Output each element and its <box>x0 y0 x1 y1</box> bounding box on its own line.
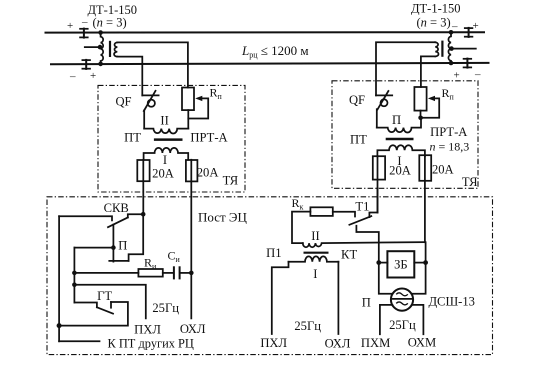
svg-text:ПТ: ПТ <box>350 133 367 147</box>
svg-text:+: + <box>67 20 73 32</box>
wire ЗБ left stub <box>379 262 388 264</box>
wiper arrow loop Rп right <box>421 96 440 118</box>
contact ГТ <box>59 302 128 326</box>
svg-text:20А: 20А <box>152 167 174 181</box>
transformer ПТ left winding I <box>144 148 189 160</box>
choke transformer DT2 right primary winding <box>448 32 451 63</box>
wire К ПТ stub <box>59 340 99 342</box>
contact СКВ <box>59 212 145 248</box>
block ЗБ <box>387 251 414 277</box>
node Rи branch <box>72 271 77 276</box>
Post EC box <box>47 197 493 355</box>
choke transformer DT2 right secondary winding <box>435 42 438 56</box>
svg-text:–: – <box>69 71 76 83</box>
transformer ПРТ right winding I <box>377 145 425 156</box>
svg-text:QF: QF <box>115 95 131 109</box>
wire left fuse through right box <box>377 156 379 212</box>
node bottom rail tap right <box>449 61 454 66</box>
core of ПТ left <box>154 138 183 141</box>
svg-text:П: П <box>362 295 371 309</box>
resistor Rп right <box>414 87 426 111</box>
transformer П1 winding II <box>303 242 425 247</box>
node top rail tap right <box>449 30 454 35</box>
wire secondary bottom to QF <box>117 57 142 96</box>
wire right vertical to ДСШ <box>412 242 426 294</box>
wire middle tap stub right <box>452 48 476 50</box>
wire ПХЛ branch left section <box>74 285 145 319</box>
wire П1-I left to ПХЛ terminal <box>272 262 289 334</box>
svg-text:25Гц: 25Гц <box>294 319 321 333</box>
node middle tap right <box>449 46 454 51</box>
core of П1 <box>304 252 329 254</box>
choke transformer DT1 left secondary winding <box>114 42 117 56</box>
relay ДСШ-13 <box>391 289 413 311</box>
wire left fuse through <box>142 160 144 214</box>
svg-text:–: – <box>81 16 88 28</box>
breaker QF right <box>376 91 392 128</box>
svg-text:ПРТ-А: ПРТ-А <box>430 125 467 139</box>
wire top rail <box>46 31 485 33</box>
insulated joint bottom-right <box>464 59 472 68</box>
svg-text:ПТ: ПТ <box>124 131 141 145</box>
svg-text:ОХЛ: ОХЛ <box>180 322 206 336</box>
wire bottom rail <box>51 63 489 64</box>
core of DT2 right <box>441 41 443 57</box>
wire right fuse through right box <box>424 156 426 242</box>
wire inner vertical <box>73 248 75 303</box>
wire ОХМ terminal <box>412 305 424 334</box>
svg-text:20А: 20А <box>197 166 219 180</box>
node Cи to ОХЛ wire <box>189 271 194 276</box>
svg-text:+: + <box>90 70 96 82</box>
resistor Rи <box>74 269 173 277</box>
svg-text:(n = 3): (n = 3) <box>93 16 127 30</box>
node bottom rail tap <box>98 62 103 67</box>
svg-text:25Гц: 25Гц <box>152 301 179 315</box>
core of ПРТ right <box>386 138 414 141</box>
wire ПХМ terminal <box>380 305 392 334</box>
svg-text:I: I <box>313 267 317 281</box>
svg-text:ДТ-1-150: ДТ-1-150 <box>411 2 461 16</box>
resistor Rп left <box>182 88 194 111</box>
wire Rp bottom to winding II <box>187 110 189 129</box>
svg-text:К ПТ других РЦ: К ПТ других РЦ <box>108 337 194 351</box>
node top rail tap <box>98 30 103 35</box>
breaker QF left <box>142 91 158 129</box>
wire outer vertical <box>58 216 60 341</box>
wire ЗБ right stub <box>414 262 425 264</box>
fuse 20А left-1 <box>137 160 149 181</box>
transformer ПТ left winding II <box>144 129 188 134</box>
wire Rp bottom to dot right <box>420 111 422 118</box>
svg-text:I: I <box>163 153 167 167</box>
svg-text:Т1: Т1 <box>355 200 369 214</box>
wire П1-I right to ОХЛ terminal <box>337 262 339 334</box>
fuse 20А left-2 <box>186 160 198 181</box>
wire left vertical to ДСШ <box>379 263 393 294</box>
fuse 20А right-2 <box>419 155 431 181</box>
svg-text:СКВ: СКВ <box>104 201 129 215</box>
svg-text:ТЯ: ТЯ <box>462 175 478 189</box>
svg-text:ПХЛ: ПХЛ <box>260 336 287 350</box>
svg-text:ПРТ-А: ПРТ-А <box>190 131 227 145</box>
svg-text:–: – <box>474 69 481 81</box>
svg-text:ПХМ: ПХМ <box>361 336 390 350</box>
svg-text:II: II <box>160 113 168 127</box>
core of DT1 left <box>109 41 111 57</box>
insulated joint top-left <box>80 29 88 38</box>
wiper arrow loop Rп left <box>188 96 208 119</box>
svg-text:П: П <box>392 113 401 127</box>
fuse 20А right-1 <box>373 156 385 179</box>
wire secondary top to Rp <box>117 42 188 87</box>
svg-text:+: + <box>454 70 460 82</box>
wire П horizontal to inner vertical <box>74 247 113 249</box>
wire secondary top to QF right <box>376 42 435 95</box>
svg-text:n = 18,3: n = 18,3 <box>430 140 470 154</box>
svg-text:II: II <box>311 229 319 243</box>
svg-text:QF: QF <box>349 93 365 107</box>
svg-text:Пост ЭЦ: Пост ЭЦ <box>198 210 247 225</box>
contact П <box>109 245 128 261</box>
svg-text:ЗБ: ЗБ <box>394 257 408 271</box>
wire ОХЛ terminal left section <box>190 273 192 319</box>
resistor Rк <box>292 207 333 243</box>
svg-text:ОХМ: ОХМ <box>408 336 436 350</box>
svg-text:25Гц: 25Гц <box>389 318 416 332</box>
svg-text:20А: 20А <box>432 162 454 176</box>
wire fuse1 down to П contact step <box>129 214 144 261</box>
svg-text:П1: П1 <box>266 246 281 260</box>
svg-text:КТ: КТ <box>341 248 357 262</box>
svg-text:20А: 20А <box>389 164 411 178</box>
capacitor Cи <box>174 266 191 279</box>
node ГТ return on outer vertical <box>57 323 62 328</box>
insulated joint bottom-left <box>82 60 90 69</box>
svg-text:+: + <box>473 20 479 32</box>
node Rp bottom right <box>418 116 423 121</box>
TYa cabinet box left <box>98 85 245 192</box>
svg-text:ТЯ: ТЯ <box>223 174 239 188</box>
wire middle tap stub left <box>85 46 100 48</box>
contact Т1 <box>333 188 379 262</box>
node ЗБ right <box>423 260 428 265</box>
transformer ПРТ right winding П <box>377 118 421 133</box>
svg-text:ПХЛ: ПХЛ <box>134 322 161 336</box>
node ЗБ left <box>376 260 381 265</box>
node ПХЛ branch <box>72 282 77 287</box>
svg-text:(n = 3): (n = 3) <box>417 16 451 30</box>
svg-text:ГТ: ГТ <box>97 289 112 303</box>
transformer П1 winding I <box>289 256 339 261</box>
TYa cabinet box right <box>332 81 478 189</box>
svg-text:ОХЛ: ОХЛ <box>325 337 351 351</box>
wire secondary bottom to Rp right <box>421 56 435 87</box>
node middle tap <box>98 45 103 50</box>
wire right fuse through <box>190 160 192 273</box>
svg-text:П: П <box>118 238 127 252</box>
svg-text:ДСШ-13: ДСШ-13 <box>428 295 474 309</box>
insulated joint top-right <box>465 28 473 37</box>
choke transformer DT1 left primary winding <box>101 33 104 64</box>
